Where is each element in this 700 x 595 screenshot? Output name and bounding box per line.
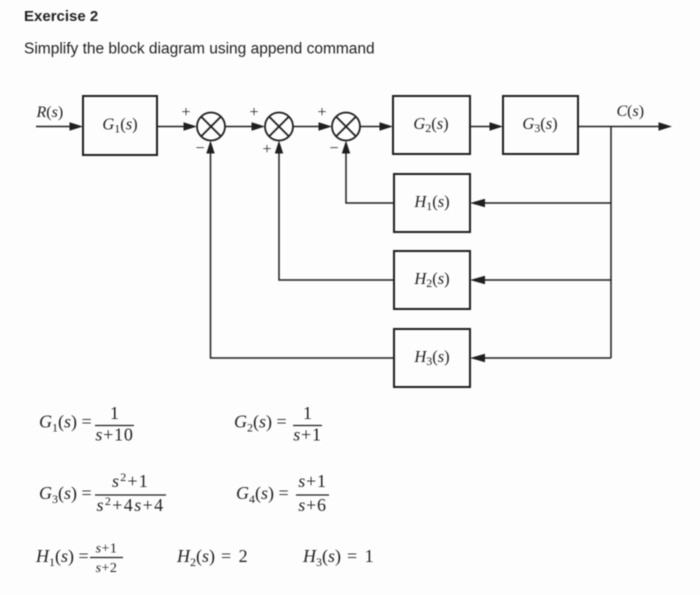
wire: takeoff to H3 input [470,354,611,362]
svg-text:s+10: s+10 [95,425,133,445]
svg-text:G4(s) =: G4(s) = [236,483,289,506]
svg-text:+: + [262,141,271,158]
svg-text:s+1: s+1 [96,542,118,557]
svg-text:+: + [317,104,326,121]
svg-text:G3(s) =: G3(s) = [39,483,92,506]
wire: S3 to G2 [360,122,393,131]
block G1 [83,96,157,155]
svg-text:+: + [181,104,190,121]
svg-text:s2+4s+4: s2+4s+4 [96,494,164,515]
formula G1(s) = 1/(s+10) [39,403,134,445]
block H2 [394,251,470,309]
svg-text:s+2: s+2 [96,561,118,576]
node: takeoff vertical line from output [610,127,612,359]
summing junction S1 [197,113,225,141]
svg-text:1: 1 [303,403,312,423]
svg-text:Exercise 2: Exercise 2 [24,8,98,25]
svg-text:−: − [329,140,338,157]
svg-text:R(s): R(s) [36,104,64,121]
svg-text:H1(s): H1(s) [413,192,449,213]
wire: takeoff to H1 input [470,199,611,207]
formula G2(s) = 1/(s+1) [234,403,322,445]
formula G4(s) = (s+1)/(s+6) [236,471,329,515]
block G3 [503,96,578,154]
svg-text:H1(s) =: H1(s) = [35,546,89,569]
svg-text:s+1: s+1 [293,425,322,445]
wire: G2 to G3 [470,122,503,131]
svg-text:H2(s) = 2: H2(s) = 2 [176,546,249,569]
summing junction S2 [265,113,293,141]
svg-text:s2+1: s2+1 [112,470,149,491]
wire: H3 output to S1 [206,141,394,359]
svg-text:−: − [195,140,204,157]
svg-text:H3(s) = 1: H3(s) = 1 [302,546,375,569]
wire: H2 output to S2 [275,141,394,281]
block H3 [394,329,470,387]
wire: input arrow into G1 [36,122,83,131]
svg-text:H2(s): H2(s) [413,269,449,290]
svg-text:+: + [249,104,258,121]
svg-text:G3(s): G3(s) [522,114,557,135]
wire: output line to C(s) arrow [578,122,672,131]
svg-text:s+1: s+1 [298,471,327,491]
wire: S1 to S2 [225,122,265,131]
svg-text:Simplify the block diagram usi: Simplify the block diagram using append … [24,41,375,58]
svg-text:C(s): C(s) [617,103,645,120]
wire: S2 to S3 [293,122,332,131]
svg-text:G2(s) =: G2(s) = [234,412,287,435]
svg-text:s+6: s+6 [298,495,327,515]
formula G3(s) = (s^2+1)/(s^2+4s+4) [39,470,166,515]
block G2 [393,96,470,154]
wire: G1 to summing junction S1 [157,122,197,131]
svg-text:1: 1 [110,403,119,423]
svg-text:G1(s): G1(s) [102,115,137,136]
svg-text:G2(s): G2(s) [413,114,448,135]
formula H1(s) = (s+1)/(s+2) [35,542,123,577]
svg-text:G1(s) =: G1(s) = [39,412,92,435]
wire: takeoff to H2 input [470,276,611,284]
svg-text:H3(s): H3(s) [413,347,449,368]
block H1 [394,174,470,232]
summing junction S3 [332,113,360,141]
wire: H1 output to S3 [342,141,394,204]
